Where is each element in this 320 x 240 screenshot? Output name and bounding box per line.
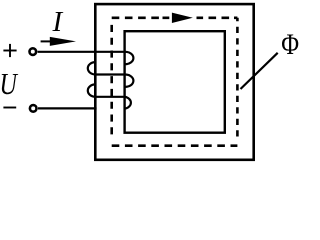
turn arc right 2 xyxy=(125,75,133,87)
coil winding xyxy=(88,52,134,109)
node + terminal xyxy=(30,48,37,55)
svg-text:U: U xyxy=(0,67,18,101)
wire top xyxy=(38,51,126,53)
flux path dashed right edge xyxy=(236,18,239,139)
flux label leader line xyxy=(241,53,278,89)
turn arc left 2 xyxy=(88,84,96,96)
core outer boundary xyxy=(95,4,253,160)
node - terminal xyxy=(30,105,37,112)
flux path dashed left edge xyxy=(110,25,113,137)
turn arc right 3 xyxy=(125,97,131,109)
flux path dashed bottom edge xyxy=(112,144,238,147)
flux direction arrow xyxy=(172,13,193,23)
svg-text:Φ: Φ xyxy=(281,29,299,61)
current arrow I xyxy=(41,37,76,46)
core inner window xyxy=(125,31,225,133)
svg-text:I: I xyxy=(52,6,64,38)
crossing wire 2 xyxy=(94,96,125,98)
turn arc left 1 xyxy=(88,62,96,74)
crossing wire 1 xyxy=(94,73,125,75)
wire bottom xyxy=(38,107,97,109)
flux path dashed top edge xyxy=(112,16,238,19)
turn arc right 1 xyxy=(125,52,133,64)
label - xyxy=(3,107,16,109)
label + xyxy=(3,44,16,57)
